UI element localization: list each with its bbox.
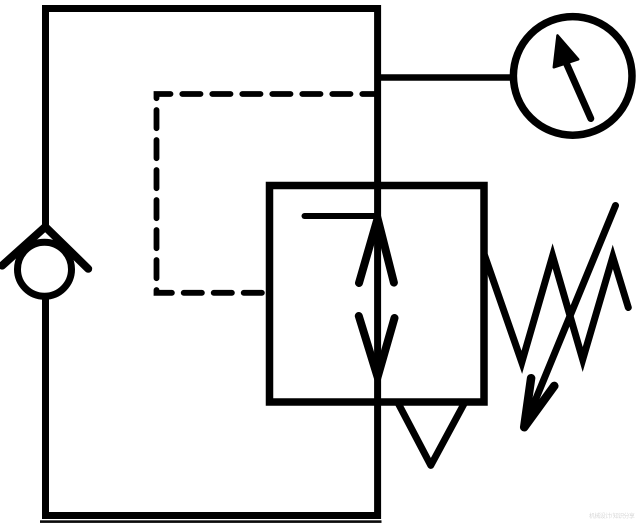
adjustment arrow shaft bbox=[524, 206, 615, 428]
pressure gauge G body bbox=[513, 17, 632, 136]
watermark bbox=[589, 511, 634, 520]
valve internal: inlet bar bbox=[305, 213, 378, 219]
bottom shadow line bbox=[40, 520, 382, 523]
check valve V1 seat bbox=[2, 227, 88, 269]
valve internal: up arrowhead bbox=[359, 219, 394, 284]
valve internal: down arrowhead bbox=[359, 316, 395, 377]
adjustment arrow head bbox=[524, 378, 554, 427]
wire: gauge connection line bbox=[378, 74, 513, 81]
valve body (pressure regulator) bbox=[270, 186, 485, 403]
pilot line (dashed) from main line to valve bbox=[157, 94, 378, 293]
exhaust triangle bbox=[398, 404, 464, 466]
pressure gauge G needle bbox=[566, 63, 591, 119]
pressure gauge G needle head bbox=[554, 36, 578, 68]
wire: main flow loop rectangle (left/top/right/bottom lines) bbox=[46, 9, 378, 516]
check valve V1 ball bbox=[18, 242, 72, 296]
spring (adjustable) bbox=[485, 255, 629, 362]
